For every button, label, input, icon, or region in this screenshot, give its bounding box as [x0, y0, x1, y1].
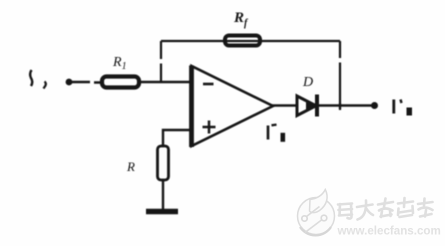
watermark logo	[298, 190, 335, 236]
wire plus input to R	[163, 130, 192, 147]
op-amp U1	[192, 66, 274, 146]
wire diode to output terminal	[319, 104, 373, 107]
wire feedback left vertical	[160, 41, 162, 82]
wire input dashed segment	[72, 81, 101, 84]
op-amp inverting pin marker	[203, 83, 214, 86]
svg-text:www.elecfans.com: www.elecfans.com	[337, 225, 441, 238]
node Vi input label	[30, 70, 32, 86]
node Vo output label	[394, 100, 412, 116]
resistor R1	[102, 77, 139, 88]
wire feedback right vertical	[339, 41, 341, 109]
wire feedback top	[161, 40, 340, 42]
svg-text:R1: R1	[112, 55, 127, 72]
op-amp non-inverting pin marker	[203, 121, 216, 134]
svg-text:Rf: Rf	[233, 10, 249, 29]
ground	[146, 209, 178, 215]
diode D	[297, 96, 316, 116]
output terminal dot	[371, 102, 378, 109]
node VB label at op-amp output	[268, 125, 285, 142]
input terminal dot	[66, 79, 73, 86]
resistor Rf	[225, 36, 260, 46]
svg-text:D: D	[302, 75, 313, 90]
wire R to ground	[162, 180, 164, 211]
watermark text dianzifashaoyou	[338, 198, 433, 220]
svg-text:R: R	[126, 159, 135, 174]
wire op-amp output to diode	[271, 104, 297, 107]
resistor R	[158, 146, 169, 180]
node junction feedback output	[339, 103, 341, 110]
wire R1 to inverting input	[139, 81, 192, 83]
